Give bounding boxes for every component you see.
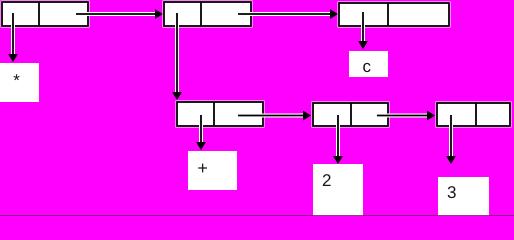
cdr pointer arrow from cell 4 to cell 5 [238,111,311,121]
cdr pointer arrow from cell 2 to cell 3 [238,9,338,19]
car pointer arrow from cell 6 toward "3" box [446,115,456,164]
value box "+" [188,151,237,190]
svg-text:2: 2 [322,171,331,190]
value box "2" [313,164,363,216]
svg-text:+: + [197,158,208,178]
bottom edge artifact line [0,215,514,216]
cons cell 2 (top-middle pair) [163,1,253,28]
cons cell 5 (middle pair) [312,102,390,128]
cons cell 6 (middle-right pair) [436,102,512,128]
value box "3" [438,177,489,216]
value box "*" [0,63,39,102]
svg-text:*: * [13,71,20,90]
car pointer arrow from cell 3 to "c" box [358,12,368,49]
cdr pointer arrow from cell 1 to cell 2 [76,9,163,19]
car pointer arrow from cell 1 to "*" box [8,13,18,62]
car pointer arrow from cell 5 to "2" box [333,115,343,164]
cons cell 4 (middle-left pair) [176,101,265,128]
cdr pointer arrow from cell 5 to cell 6 [377,111,435,121]
cons cell 3 (top-right pair) [338,2,451,28]
value box "c" [349,51,388,77]
svg-text:c: c [363,57,372,76]
car pointer arrow from cell 4 to "+" box [196,115,206,150]
cons cell 1 (top-left pair) [1,1,90,28]
svg-text:3: 3 [447,183,456,202]
car pointer arrow from cell 2 down to cell 4 [172,13,182,100]
